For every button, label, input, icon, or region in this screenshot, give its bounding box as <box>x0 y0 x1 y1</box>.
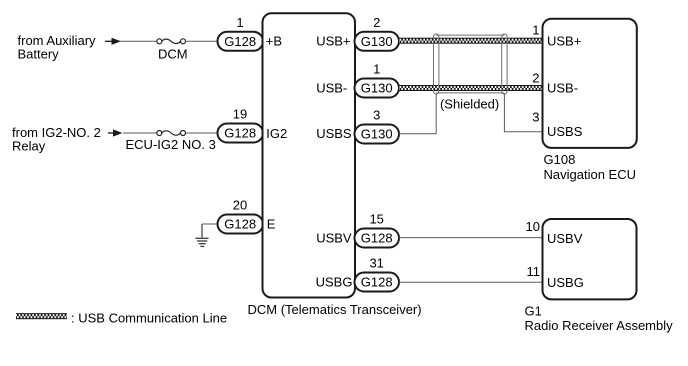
svg-text:G128: G128 <box>361 231 393 246</box>
svg-text:G128: G128 <box>361 275 393 290</box>
svg-text:DCM: DCM <box>158 47 188 62</box>
fuse: DCM fuse symbol <box>157 39 186 44</box>
svg-text:USBV: USBV <box>547 231 583 246</box>
svg-text:G1: G1 <box>525 304 542 319</box>
svg-text:Radio Receiver Assembly: Radio Receiver Assembly <box>525 318 674 333</box>
svg-text:(Shielded): (Shielded) <box>440 97 499 112</box>
pin number 3 (USBS G130) <box>373 108 380 123</box>
pin number 2 (Navigation ECU USB-) <box>532 70 539 85</box>
svg-text:2: 2 <box>373 15 380 30</box>
pin number 2 (USB+ G130) <box>373 15 380 30</box>
pin number 31 (USBG G128) <box>369 256 383 271</box>
svg-text:: USB Communication Line: : USB Communication Line <box>71 310 227 325</box>
pin number 1 (Navigation ECU USB+) <box>532 23 539 38</box>
pin name USB+ (Navigation ECU) <box>547 34 581 49</box>
pin name USBS (Navigation ECU) <box>547 124 583 139</box>
label: G1 Radio Receiver Assembly <box>525 304 674 334</box>
pin number 20 (E) <box>233 198 247 213</box>
arrow: auxiliary battery feed <box>105 38 121 45</box>
node: from IG2-NO.2 Relay label <box>12 125 101 154</box>
wire: USBS from G130 to shield drain <box>399 94 436 134</box>
pin number 1 (USB- G130) <box>373 62 380 77</box>
wire: USBG line <box>399 281 543 283</box>
svg-text:USBV: USBV <box>316 230 352 245</box>
svg-text:G108: G108 <box>544 152 576 167</box>
shield: right braid post <box>502 34 507 94</box>
pin name USB- (Navigation ECU) <box>547 80 578 95</box>
svg-text:USBG: USBG <box>316 274 353 289</box>
pin number 11 (Radio USBG) <box>527 264 541 279</box>
svg-text:15: 15 <box>369 212 383 227</box>
wire: battery to fuse <box>121 40 158 42</box>
svg-text:2: 2 <box>532 70 539 85</box>
svg-text:1: 1 <box>373 62 380 77</box>
arrow: IG2 relay feed <box>108 129 123 136</box>
wire: shield drain to Navigation ECU USBS <box>504 94 542 132</box>
svg-text:1: 1 <box>236 15 243 30</box>
svg-text:Relay: Relay <box>12 138 46 153</box>
wire: ground to connector G128 pin 20 <box>202 223 218 225</box>
pin name +B <box>266 34 282 49</box>
pin number 1 (+B) <box>236 15 243 30</box>
pin name E <box>267 217 276 232</box>
pin number 19 (IG2) <box>233 107 247 122</box>
label: DCM (Telematics Transceiver) <box>248 302 422 317</box>
legend: USB communication line sample <box>16 313 67 319</box>
pin name USBG <box>316 274 353 289</box>
svg-text:20: 20 <box>233 198 247 213</box>
svg-text:USB+: USB+ <box>547 34 581 49</box>
svg-text:DCM (Telematics Transceiver): DCM (Telematics Transceiver) <box>248 302 422 317</box>
pin name USBV <box>316 230 352 245</box>
node: from Auxiliary Battery label <box>18 33 97 62</box>
svg-text:3: 3 <box>373 108 380 123</box>
Navigation ECU box G108 <box>543 19 637 148</box>
pin name USB+ <box>316 34 350 49</box>
shield: top line <box>436 34 504 36</box>
svg-text:G130: G130 <box>361 127 393 142</box>
svg-text:+B: +B <box>266 34 282 49</box>
svg-text:11: 11 <box>527 264 541 279</box>
wire: fuse to connector G128 pin 1 <box>186 40 219 42</box>
svg-text:Navigation ECU: Navigation ECU <box>544 167 637 182</box>
svg-text:G128: G128 <box>224 217 256 232</box>
svg-text:G128: G128 <box>224 34 256 49</box>
svg-text:IG2: IG2 <box>266 126 287 141</box>
fuse: ECU-IG2 NO. 3 fuse symbol <box>157 131 186 136</box>
pin name IG2 <box>266 126 287 141</box>
svg-text:USB-: USB- <box>547 80 578 95</box>
svg-text:USBS: USBS <box>547 124 583 139</box>
svg-text:1: 1 <box>532 23 539 38</box>
legend: USB Communication Line text <box>71 310 227 325</box>
wire: USB- communication line (shielded) <box>399 85 543 91</box>
svg-text:3: 3 <box>532 110 539 125</box>
shield: bottom line <box>436 92 504 94</box>
connector G130 (USBS) <box>355 125 400 144</box>
svg-text:31: 31 <box>369 256 383 271</box>
Radio Receiver Assembly box G1 <box>543 219 637 299</box>
svg-text:USB+: USB+ <box>316 34 350 49</box>
wire: USBV line <box>399 237 543 239</box>
connector G130 (USB-) <box>355 79 400 98</box>
pin number 3 (Navigation ECU USBS) <box>532 110 539 125</box>
label: ECU-IG2 NO. 3 fuse name <box>126 137 216 152</box>
pin name USBG (Radio) <box>547 275 584 290</box>
pin name USB- <box>316 80 347 95</box>
connector G128 (+B) <box>218 32 264 51</box>
shield: left braid post <box>434 34 439 94</box>
svg-text:10: 10 <box>526 219 540 234</box>
DCM (Telematics Transceiver) box <box>263 13 356 297</box>
connector G128 (E) <box>218 215 264 234</box>
connector G128 (USBV) <box>355 229 400 248</box>
connector G130 (USB+) <box>355 32 400 51</box>
svg-text:G130: G130 <box>361 81 393 96</box>
svg-text:USBG: USBG <box>547 275 584 290</box>
pin number 10 (Radio USBV) <box>526 219 540 234</box>
svg-text:Battery: Battery <box>18 47 60 62</box>
pin name USBV (Radio) <box>547 231 583 246</box>
label: (Shielded) <box>440 97 499 112</box>
pin name USBS <box>316 126 352 141</box>
pin number 15 (USBV G128) <box>369 212 383 227</box>
connector G128 (USBG) <box>355 273 400 292</box>
wire: fuse to connector G128 pin 19 <box>186 132 219 134</box>
svg-text:19: 19 <box>233 107 247 122</box>
label: DCM fuse name <box>158 47 188 62</box>
svg-text:E: E <box>267 217 276 232</box>
wire: USB+ communication line (shielded) <box>399 38 543 44</box>
label: G108 Navigation ECU <box>544 152 637 182</box>
svg-text:G130: G130 <box>361 34 393 49</box>
svg-text:G128: G128 <box>224 126 256 141</box>
connector G128 (IG2) <box>218 124 264 143</box>
svg-text:ECU-IG2 NO. 3: ECU-IG2 NO. 3 <box>126 137 216 152</box>
wire: relay to fuse <box>123 132 157 134</box>
svg-text:USB-: USB- <box>316 80 347 95</box>
svg-text:USBS: USBS <box>316 126 352 141</box>
ground <box>196 224 209 246</box>
